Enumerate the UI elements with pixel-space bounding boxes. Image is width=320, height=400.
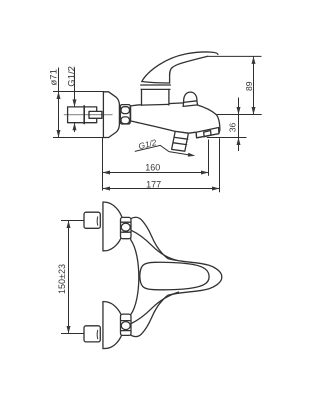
svg-text:G1/2: G1/2 xyxy=(67,66,78,87)
front view: nut ring lower xyxy=(121,117,130,124)
arrow 36 up xyxy=(237,138,241,146)
arrow 89 down xyxy=(252,107,256,115)
front view: pipe thread stub xyxy=(89,111,102,118)
dim o71 line xyxy=(58,68,60,138)
svg-text:160: 160 xyxy=(145,162,160,172)
front view: aerator outlet xyxy=(204,131,211,137)
plan view: handle blob xyxy=(140,262,209,290)
arrow 150 up xyxy=(67,221,71,229)
dim 36 extension bottom xyxy=(207,137,247,139)
front view: handle column (cartridge cover) xyxy=(142,89,169,105)
plan view: bottom union nut xyxy=(121,314,132,335)
front view: nut ring upper xyxy=(121,107,130,114)
plan view: top stub face edge xyxy=(96,217,99,225)
arrow leader G1/2 xyxy=(188,153,196,157)
plan view: top union nut xyxy=(121,217,132,238)
dim o71 extension top xyxy=(53,91,104,93)
plan view: bottom wing crease xyxy=(131,292,179,324)
dim G1/2 line upper xyxy=(74,68,76,107)
plan view: top pipe stub xyxy=(84,212,100,228)
front view: lever handle inner edge xyxy=(170,56,208,74)
svg-text:177: 177 xyxy=(146,179,161,189)
plan view: top wing crease xyxy=(131,230,177,260)
plan view: bottom wall escutcheon xyxy=(103,302,123,349)
front view: lever handle outer edge xyxy=(142,52,218,82)
leader G1/2 spout xyxy=(135,145,188,154)
arrow 36 down xyxy=(237,107,241,115)
front view: centerline xyxy=(64,114,112,116)
front view: handle base xyxy=(142,82,170,84)
arrow 160 right xyxy=(201,171,209,175)
dim 150 extension top xyxy=(61,220,84,222)
front view: body top edge under column xyxy=(142,103,169,106)
arrow G1/2 up xyxy=(73,123,77,131)
dim 89/36 shared extension xyxy=(217,114,262,116)
dim 150 line xyxy=(68,221,70,334)
arrow o71 up xyxy=(57,92,61,100)
dim o71 extension bottom xyxy=(53,137,104,139)
plan view: bottom nut ring xyxy=(121,322,130,330)
dim 160 right extension xyxy=(208,140,210,176)
front view: wall escutcheon flange xyxy=(103,92,119,138)
front view: eccentric nut xyxy=(120,105,130,124)
dim 160 line xyxy=(103,172,209,174)
plan view: body outline xyxy=(130,217,222,337)
plan view: bottom pipe stub xyxy=(84,326,100,342)
svg-text:89: 89 xyxy=(244,81,254,91)
plan view: bottom stub face edge xyxy=(96,330,99,338)
front view: faucet body outline xyxy=(131,103,220,138)
arrow 177 left xyxy=(103,187,111,191)
front view: shower hose connector xyxy=(172,131,189,151)
plan view: top wall escutcheon xyxy=(103,202,123,251)
dim 177 right extension xyxy=(219,138,221,192)
arrow 150 down xyxy=(67,326,71,334)
arrow 177 right xyxy=(212,187,220,191)
dim 150 extension bottom xyxy=(61,333,84,335)
front view: collar ring xyxy=(141,84,171,86)
dim 177 line xyxy=(103,188,220,190)
svg-text:ø71: ø71 xyxy=(48,69,59,85)
front view: aerator xyxy=(196,128,219,138)
arrow 89 up xyxy=(252,56,256,64)
dim 160/177 left extension xyxy=(102,138,104,191)
arrow 160 left xyxy=(103,171,111,175)
front view: diverter knob dome xyxy=(183,92,197,106)
front view: G1/2 inlet pipe tube xyxy=(68,107,97,123)
plan view: top nut ring xyxy=(121,223,130,231)
svg-text:150±23: 150±23 xyxy=(57,264,67,294)
front view: pipe flange face xyxy=(83,106,85,124)
dim 89 extension top xyxy=(208,55,262,57)
arrow o71 down xyxy=(57,130,61,138)
arrow G1/2 down xyxy=(73,99,77,107)
dim G1/2 line lower xyxy=(74,123,76,132)
front view: handle neck right edge xyxy=(169,75,171,83)
dim 89 line xyxy=(253,56,255,114)
svg-text:36: 36 xyxy=(228,122,238,132)
dim 36 line xyxy=(238,98,240,152)
